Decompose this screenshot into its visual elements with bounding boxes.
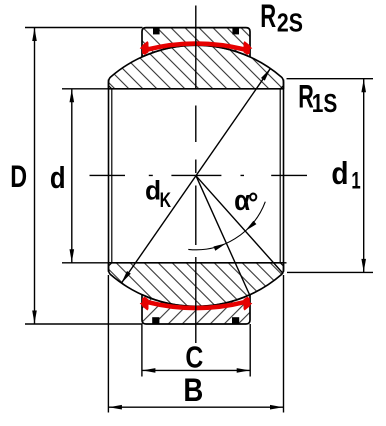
seal block top-left: [153, 28, 160, 35]
inner ring right face line: [283, 80, 285, 272]
d dimension line: [71, 89, 73, 263]
inner ring left face line: [108, 80, 110, 272]
inner ring lower section (sphere dome, hatched): [109, 263, 284, 307]
seal block top-right: [232, 28, 239, 35]
svg-text:1S: 1S: [312, 89, 338, 117]
bore chamfer corner bottom-left: [109, 263, 112, 266]
B dimension line: [108, 406, 283, 408]
bore chamfer corner top-left: [109, 86, 112, 89]
tilt line 42deg: [196, 176, 283, 274]
dK sphere diameter line: [121, 68, 270, 283]
svg-text:°: °: [248, 186, 258, 219]
d1 extension line top: [287, 78, 374, 80]
d extension line bottom: [62, 262, 287, 264]
svg-text:D: D: [10, 159, 27, 194]
B extension line left: [107, 275, 109, 413]
d extension line top: [62, 88, 109, 90]
bore chamfer corner bottom-right: [280, 263, 283, 266]
red band end wedge bottom-left: [142, 297, 148, 311]
alpha angle arc: [188, 202, 265, 250]
vertical centerline: [195, 6, 197, 344]
red band end wedge top-left: [142, 41, 148, 55]
seal block bottom-right: [232, 317, 239, 324]
horizontal centerline (bearing axis): [90, 174, 308, 176]
outer ring upper section (hatched): [142, 28, 250, 57]
red sliding surface band top: [147, 44, 246, 50]
svg-text:K: K: [160, 188, 172, 212]
D extension line bottom: [25, 323, 143, 325]
C extension line right: [249, 324, 251, 377]
bore chamfer corner top-right: [280, 86, 283, 89]
inner ring bore chamfer edge right: [279, 89, 281, 263]
red band end wedge top-right: [244, 41, 250, 55]
B extension line right: [283, 275, 285, 413]
svg-text:B: B: [183, 373, 203, 408]
inner ring upper section (sphere dome, hatched): [109, 45, 284, 89]
svg-text:d: d: [145, 176, 161, 206]
svg-text:1: 1: [351, 167, 360, 194]
d1 extension line bottom: [287, 271, 373, 273]
C extension line left: [141, 324, 143, 377]
outer ring lower section (hatched): [142, 295, 250, 324]
seal block bottom-left: [152, 317, 159, 324]
svg-text:d: d: [50, 160, 66, 195]
d1 dimension line: [363, 79, 365, 273]
D dimension line: [34, 28, 36, 325]
inner ring bore chamfer edge left: [111, 89, 113, 263]
D extension line top: [25, 27, 143, 29]
svg-text:d: d: [331, 157, 348, 192]
svg-text:R: R: [260, 0, 276, 34]
C dimension line: [142, 369, 250, 371]
svg-text:C: C: [185, 340, 203, 374]
red sliding surface band bottom: [147, 302, 246, 308]
red band end wedge bottom-right: [244, 297, 250, 311]
tilt line 24deg: [196, 176, 250, 296]
svg-text:2S: 2S: [277, 8, 303, 38]
